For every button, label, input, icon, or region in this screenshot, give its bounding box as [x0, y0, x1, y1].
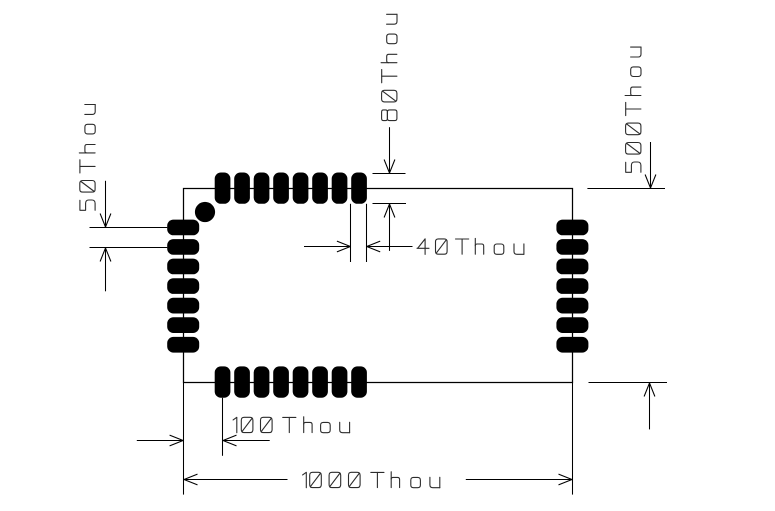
dimension text 500Thou (vertical): [625, 47, 641, 172]
pad L7: [167, 337, 199, 353]
pad T7: [332, 173, 348, 204]
pad R4: [556, 278, 588, 294]
pad R3: [556, 259, 588, 275]
pad T1: [215, 173, 231, 204]
dimension 80Thou: up arrow: [389, 204, 391, 251]
pad T4: [273, 173, 289, 204]
pad B2: [234, 366, 250, 397]
component outline rectangle: [184, 189, 573, 383]
dimension 500Thou: down arrow: [650, 142, 652, 188]
pad L4: [167, 278, 199, 294]
dimension 80Thou: extension line at bottom of pads: [373, 203, 407, 205]
pad L3: [167, 259, 199, 275]
pad B1: [215, 366, 231, 397]
extension line: outline left edge extended down: [183, 383, 185, 495]
dimension 40Thou: left extension line at pad T8 left edge: [350, 204, 352, 262]
pad R5: [556, 298, 588, 314]
dimension 50Thou: lower extension line at pad L2 center: [90, 247, 168, 249]
dimension 50Thou: up arrow: [105, 248, 107, 291]
dimension 80Thou: extension line at top of pads: [373, 173, 406, 175]
dimension text 100Thou: [233, 417, 350, 433]
pad L1: [167, 220, 199, 236]
dimension 500Thou: up arrow: [649, 383, 651, 429]
dimension 80Thou: down arrow: [389, 127, 391, 173]
pad B7: [332, 366, 348, 397]
pad R6: [556, 317, 588, 333]
dimension text 80Thou (vertical): [381, 14, 397, 120]
dimension 1000Thou: right arrow pointing right at outline extension: [466, 479, 572, 481]
dimension 100Thou: right arrow pointing left: [223, 440, 270, 442]
pad T6: [312, 173, 328, 204]
pad B3: [254, 366, 270, 397]
dimension 1000Thou: left arrow pointing left at outline extension: [184, 479, 288, 481]
pad B5: [293, 366, 309, 397]
pad L2: [167, 239, 199, 255]
pad R1: [556, 220, 588, 236]
pad T3: [254, 173, 270, 204]
pad T5: [293, 173, 309, 204]
dimension 50Thou: upper extension line at pad L1 center: [90, 227, 168, 229]
extension line: outline right edge extended down: [572, 383, 574, 495]
pin 1 marker dot: [195, 202, 215, 222]
dimension 50Thou: down arrow: [105, 181, 107, 227]
pad T8: [351, 173, 367, 204]
dimension 40Thou: right extension line at pad T8 right edge: [366, 204, 368, 262]
dimension 40Thou: right arrow pointing left with leader: [367, 246, 413, 248]
dimension text 50Thou (vertical): [79, 105, 95, 211]
dimension 500Thou: bottom extension line: [589, 382, 668, 384]
pad B4: [273, 366, 289, 397]
pad T2: [234, 173, 250, 204]
dimension 40Thou: left arrow pointing right: [304, 246, 350, 248]
dimension 100Thou: left arrow pointing right: [137, 440, 183, 442]
pad B6: [312, 366, 328, 397]
pad L6: [167, 317, 199, 333]
dimension text 40Thou: [417, 238, 524, 254]
pad R2: [556, 239, 588, 255]
pad B8: [351, 366, 367, 397]
dimension 100Thou: extension line at pad B1 center: [222, 398, 224, 456]
pad L5: [167, 298, 199, 314]
dimension 500Thou: top extension line: [587, 188, 665, 190]
pad R7: [556, 337, 588, 353]
dimension text 1000Thou: [303, 472, 440, 488]
